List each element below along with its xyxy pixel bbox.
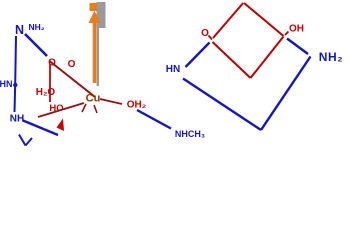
svg-text:OH: OH [289,24,304,35]
svg-text:Cu: Cu [86,93,101,105]
svg-text:H₂O: H₂O [36,87,56,98]
ring bond B-R (red) [251,37,284,79]
wire: left vertical bond lower [14,84,17,112]
bond Cu to aqua OH2 [100,99,122,104]
orange arrow (elongation) [89,3,101,83]
ring bond T-L (red) [213,3,243,38]
svg-text:O: O [68,59,76,70]
bond N to cage (thick blue diagonal) [25,34,47,56]
bond N to bottom vertex [183,79,261,131]
ring bond L-B (red) [213,42,251,78]
svg-text:NH: NH [10,114,24,125]
wedge bond (stereo) [57,119,65,132]
svg-text:NHCH₃: NHCH₃ [175,129,205,139]
bond Cu short down-left [82,104,86,112]
bond stub OH to right vertex [285,32,289,36]
bond stub bottom-left 2 [26,138,33,146]
svg-text:HN: HN [166,64,180,75]
svg-text:OH₂: OH₂ [127,100,146,111]
svg-text:HN: HN [0,79,13,89]
gray axial bond (behind orange arrow) [97,2,106,86]
svg-text:N: N [15,23,24,37]
bond to amine chain [137,110,171,129]
bond Cu short down-right [94,105,97,113]
bond bottom vertex to NH2 vertex [261,57,311,131]
node on left vertical [13,83,17,87]
bond bottom-left diagonal [23,121,58,136]
bond Cu to lower-left ligand [38,103,84,117]
svg-text:NH₂: NH₂ [28,22,44,32]
bond stub bottom-left [19,135,26,146]
bond L vertex to N [186,43,210,68]
wire: left vertical bond upper [14,36,17,84]
svg-text:NH₂: NH₂ [319,50,343,64]
bond O1 to Cu (long diagonal) [50,61,96,97]
svg-text:O: O [201,28,209,39]
ring bond T-R (red) [244,3,284,36]
bond O to water (red vertical) [49,64,51,102]
bond OH vertex to NH2 vertex [287,39,308,55]
bond stub O to left vertex [209,36,213,40]
